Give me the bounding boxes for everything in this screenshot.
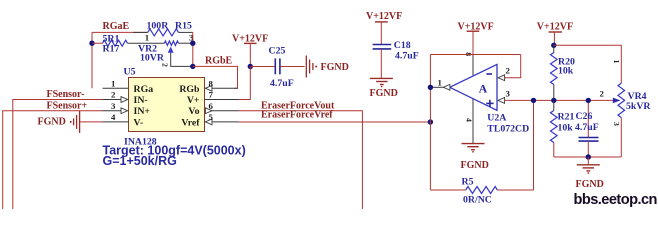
junction Vref / feedback column [428, 119, 433, 124]
svg-text:7: 7 [209, 90, 214, 100]
svg-text:G=1+50k/RG: G=1+50k/RG [103, 154, 177, 168]
capacitor C18 [373, 45, 392, 79]
ground FGND right of C25 (sideways) [306, 56, 317, 78]
svg-text:2: 2 [111, 90, 116, 100]
svg-text:FGND: FGND [461, 160, 489, 171]
junction R5 column / pin3 row [531, 98, 536, 103]
pin 1 RGa [103, 78, 129, 88]
svg-text:1: 1 [145, 32, 149, 42]
op-amp U2A triangle [450, 64, 497, 110]
svg-text:R15: R15 [175, 21, 192, 32]
ground FGND bottom right [577, 157, 600, 173]
svg-text:2: 2 [506, 66, 511, 76]
svg-text:1: 1 [612, 60, 621, 64]
svg-text:FSensor+: FSensor+ [47, 101, 88, 112]
wire R5 right column up [533, 100, 535, 190]
svg-text:RGbE: RGbE [205, 56, 233, 67]
wire feedback/output left column [429, 55, 431, 191]
wire EraserForceVref [239, 121, 431, 123]
ground FGND left (sideways) [70, 111, 80, 133]
svg-text:6: 6 [209, 101, 214, 111]
svg-text:10VR: 10VR [140, 52, 165, 63]
capacitor C26 [579, 100, 599, 157]
pin 6 Vo [205, 101, 239, 114]
svg-text:A: A [479, 82, 488, 96]
potentiometer VR4 [613, 83, 625, 157]
svg-text:EraserForceVref: EraserForceVref [261, 110, 333, 121]
svg-text:4.7uF: 4.7uF [395, 50, 419, 61]
IC U5 INA128 body [129, 78, 205, 132]
svg-text:8: 8 [209, 78, 214, 88]
svg-text:0R/NC: 0R/NC [463, 194, 492, 205]
ground FGND below U2A [462, 144, 485, 152]
wire feedback right to pin 2 [505, 55, 521, 78]
svg-text:C26: C26 [576, 111, 593, 122]
svg-text:2: 2 [600, 89, 605, 99]
svg-text:100R: 100R [147, 21, 170, 32]
svg-text:2: 2 [160, 63, 169, 67]
wire FSensor+ [3, 111, 103, 209]
ground FGND below C18 [370, 78, 393, 86]
svg-text:3: 3 [612, 122, 621, 126]
wire FSensor- [13, 100, 103, 210]
svg-text:RGaE: RGaE [103, 21, 130, 32]
pin 8 power stub U2A [464, 52, 473, 75]
svg-text:Vo: Vo [188, 106, 199, 117]
svg-text:1: 1 [438, 77, 442, 87]
pin 4 V- [103, 112, 129, 122]
power port V+12VF for U2A [458, 22, 494, 55]
pin 1 output U2A [430, 77, 450, 90]
resistor R21 [551, 100, 558, 157]
resistor R20 [551, 45, 558, 100]
svg-text:RGa: RGa [134, 84, 154, 95]
svg-text:FGND: FGND [38, 116, 66, 127]
svg-text:R5: R5 [462, 177, 474, 188]
svg-text:FGND: FGND [321, 62, 349, 73]
junction C26 top [586, 98, 591, 103]
wire RGbE [193, 66, 238, 88]
junction node A [89, 41, 94, 46]
svg-text:C25: C25 [269, 46, 286, 57]
pin 8 RGb [205, 78, 238, 91]
svg-text:IN+: IN+ [134, 106, 151, 117]
svg-text:V+12VF: V+12VF [232, 33, 268, 44]
svg-text:FGND: FGND [370, 88, 398, 99]
wire RGaE top row [92, 31, 193, 33]
pin 5 Vref [205, 112, 239, 125]
junction divider top [551, 43, 556, 48]
svg-text:V-: V- [134, 117, 144, 128]
svg-text:10k: 10k [558, 122, 574, 133]
capacitor C25 [250, 58, 304, 74]
svg-text:U2A: U2A [487, 112, 506, 123]
wire top to VR4 [554, 45, 622, 83]
svg-text:Vref: Vref [181, 117, 200, 128]
wire VR2 wiper [171, 53, 193, 67]
junction output column [428, 85, 433, 90]
svg-text:V+12VF: V+12VF [366, 11, 402, 22]
junction bottom rail [586, 154, 591, 159]
svg-text:4: 4 [465, 118, 474, 122]
potentiometer VR2 [164, 41, 178, 53]
svg-text:5kVR: 5kVR [626, 101, 651, 112]
pin 3 U2A [498, 88, 511, 103]
wire node A vertical [91, 32, 93, 88]
wire node B vertical [192, 32, 194, 66]
resistor R17 [103, 40, 128, 46]
pin 4 stub U2A [465, 99, 474, 144]
svg-text:TL072CD: TL072CD [487, 123, 529, 134]
power port V+12VF middle [232, 33, 268, 66]
svg-text:V+: V+ [187, 95, 200, 106]
wire FGND to pin4 [80, 121, 103, 123]
wire feedback top [430, 54, 520, 56]
wire row2 [92, 42, 193, 44]
svg-text:4.7uF: 4.7uF [575, 122, 599, 133]
svg-text:bbs.eetop.cn: bbs.eetop.cn [574, 192, 658, 208]
svg-text:5: 5 [209, 112, 214, 122]
svg-text:U5: U5 [124, 66, 136, 77]
wire pin3 row to divider and VR4 wiper [505, 99, 613, 101]
resistor R15 [148, 29, 179, 36]
svg-text:R21: R21 [558, 112, 575, 123]
resistor R5 [430, 187, 533, 194]
pin 2 U2A [498, 66, 511, 81]
power port V+12VF for divider [537, 22, 573, 46]
wire EraserForceVout [239, 111, 363, 209]
svg-text:3: 3 [506, 88, 511, 98]
wire V+12VF down to pin 7 [239, 67, 251, 100]
svg-text:10k: 10k [558, 66, 574, 77]
svg-text:RGb: RGb [179, 84, 200, 95]
svg-text:1: 1 [111, 78, 115, 88]
pin 7 V+ [205, 90, 239, 100]
svg-text:3: 3 [111, 101, 116, 111]
svg-text:FGND: FGND [576, 179, 604, 190]
pin 2 IN- [103, 90, 128, 103]
junction V+12VF / C25 [248, 64, 253, 69]
junction node B row2 [190, 41, 195, 46]
power port V+12VF for C18 [366, 11, 402, 44]
wire bottom rail [554, 156, 622, 158]
svg-text:IN-: IN- [134, 95, 148, 106]
junction divider mid [551, 98, 556, 103]
svg-text:FSensor-: FSensor- [47, 89, 85, 100]
pin 3 IN+ [103, 101, 128, 114]
svg-text:4: 4 [111, 112, 116, 122]
junction node B RGbE [190, 64, 195, 69]
svg-text:4.7uF: 4.7uF [270, 78, 294, 89]
svg-text:R17: R17 [103, 43, 120, 54]
svg-text:V+12VF: V+12VF [537, 22, 573, 33]
